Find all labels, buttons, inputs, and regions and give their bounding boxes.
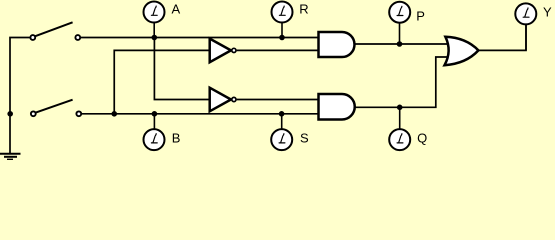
- wire: AND2 output to OR input 2: [355, 57, 448, 107]
- wire: A branch down to INV2 input: [154, 38, 210, 100]
- OR gate U5: [445, 37, 479, 65]
- junction: lamp S tap: [279, 111, 285, 117]
- ground: [0, 154, 21, 160]
- svg-text:B: B: [172, 130, 181, 145]
- svg-text:P: P: [416, 9, 425, 24]
- lamp B: [144, 114, 165, 150]
- wire: top net A from SW1 to AND1 input 1: [80, 37, 319, 39]
- lamp S: [271, 114, 292, 150]
- lamp R: [272, 2, 293, 38]
- junction: lamp B tap: [152, 111, 158, 117]
- wire: U1 output to AND1 input 2: [237, 49, 319, 51]
- junction: lamp P tap: [397, 41, 403, 47]
- inverter U1 (NOT B): [210, 39, 236, 63]
- wire: left bus from switches down to ground: [10, 38, 30, 154]
- junction: B branch to INV1: [111, 111, 117, 117]
- AND gate U3: [319, 32, 355, 57]
- junction: lamp R tap: [279, 35, 285, 41]
- wire: B branch up to INV1 input: [114, 50, 210, 113]
- switch SW1 (input A): [30, 22, 80, 40]
- svg-text:A: A: [172, 2, 181, 17]
- switch SW2 (input B): [31, 100, 81, 117]
- AND gate U4: [319, 94, 355, 120]
- svg-text:Q: Q: [417, 130, 427, 145]
- svg-text:S: S: [300, 130, 309, 145]
- inverter U2 (NOT A): [210, 88, 236, 112]
- lamp A: [144, 2, 165, 38]
- svg-text:Y: Y: [543, 4, 552, 19]
- junction: lamp A tap: [152, 35, 158, 41]
- wire: OR output to lamp Y: [479, 25, 526, 51]
- lamp P: [389, 2, 410, 44]
- junction: lamp Q tap: [397, 105, 403, 111]
- junction: ground tee: [7, 111, 13, 117]
- lamp Y: [515, 3, 536, 50]
- wire: U2 output to AND2 input 1: [237, 99, 319, 101]
- svg-text:R: R: [299, 2, 308, 17]
- lamp Q: [389, 107, 410, 150]
- wire: bottom net B from SW2 to AND2 input 2: [81, 113, 319, 115]
- wire: AND1 output to OR input 1: [355, 43, 448, 45]
